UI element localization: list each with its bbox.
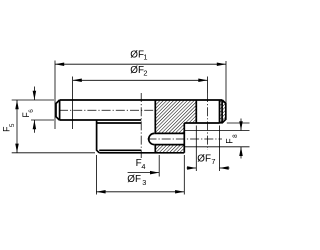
- label F4: [136, 158, 146, 171]
- svg-text:6: 6: [28, 109, 35, 113]
- dimension line F5: [16, 100, 18, 153]
- svg-text:ØF: ØF: [127, 174, 141, 185]
- dimension line dia F1: [55, 63, 226, 65]
- svg-text:7: 7: [211, 157, 215, 166]
- hatching flange section left block: [155, 100, 196, 133]
- rim outer chamfered edge: [220, 100, 226, 123]
- label dia F7: [197, 154, 215, 166]
- arrowhead F5 bottom: [15, 144, 19, 153]
- svg-text:ØF: ØF: [197, 154, 211, 165]
- part outline: [56, 100, 226, 153]
- rim inner edge: [219, 100, 221, 123]
- hatching outer rim strip: [220, 100, 226, 123]
- dimension line dia F2: [73, 79, 208, 81]
- arrowhead dia F2 left: [73, 79, 82, 83]
- bore edge above slot: [154, 100, 156, 133]
- extension line F6 bottom: [31, 119, 54, 121]
- dimension line F8 upper tail: [240, 119, 242, 131]
- recess silhouette edge line: [97, 122, 142, 124]
- radial hole end arc: [149, 133, 155, 144]
- extension line dia F7 left: [195, 126, 197, 172]
- extension line F4: [158, 155, 160, 177]
- extension line top left at y100: [12, 99, 54, 101]
- centerline bolt hole axis: [207, 93, 209, 150]
- top edge: [60, 99, 223, 101]
- label dia F1: [130, 50, 147, 62]
- label F8 (rotated): [225, 134, 239, 144]
- dimension line F6 lower tail: [33, 120, 35, 133]
- hub bottom chamfer edge circle (external view): [99, 149, 141, 151]
- label dia F2: [130, 65, 147, 77]
- dimension line dia F3: [96, 191, 184, 193]
- dimension line F6 upper tail: [33, 87, 35, 101]
- label dia F3: [127, 174, 146, 187]
- arrowhead F6 bottom (outside pointing up): [33, 120, 37, 129]
- extension line dia F2 right upper: [207, 77, 209, 94]
- label F5 (rotated): [2, 123, 16, 132]
- arrowhead F6 top (outside pointing down): [33, 91, 37, 100]
- extension line dia F2 left: [72, 77, 74, 130]
- arrowhead F8 top (pointing down): [239, 121, 243, 130]
- arrowhead dia F1 right: [217, 62, 226, 65]
- svg-text:8: 8: [232, 134, 239, 138]
- dimension line F8 lower tail: [240, 147, 242, 159]
- extension line dia F1 left: [54, 61, 56, 130]
- bore edge below slot: [154, 145, 156, 153]
- plate rim chamfer edge (left, external view): [59, 100, 61, 120]
- extension line dia F7 right: [219, 126, 221, 172]
- extension line F8 bottom: [184, 146, 249, 148]
- extension line dia F1 right: [225, 61, 227, 104]
- centerline part vertical axis: [140, 93, 142, 158]
- bolt hole left edge: [195, 100, 197, 123]
- hatching hub lower band: [155, 145, 184, 153]
- extension line bottom F5 at y153: [12, 152, 95, 154]
- extension line dia F3 right: [183, 155, 185, 195]
- left end chamfered edge: [56, 100, 60, 120]
- arrowhead dia F7 left (outside pointing right): [187, 166, 196, 170]
- centerline radial hole axis: [148, 138, 223, 140]
- hub left edge: [97, 120, 100, 153]
- step horizontal / hole bottom edge: [184, 122, 219, 124]
- arrowhead F4 right: [150, 171, 159, 175]
- svg-text:ØF: ØF: [130, 50, 144, 61]
- step vertical (recess wall): [183, 123, 185, 153]
- radial hole bottom edge: [154, 144, 184, 146]
- extension line plate bottom to F8: [227, 122, 250, 124]
- arrowhead dia F1 left: [55, 62, 64, 65]
- centerline bar axis: [59, 109, 155, 111]
- dimension line F4: [128, 172, 160, 174]
- svg-text:5: 5: [9, 123, 16, 127]
- svg-text:3: 3: [142, 178, 146, 187]
- dimension line dia F7 left tail: [187, 167, 197, 169]
- plate bottom edge (to axis): [59, 119, 141, 121]
- dimension line dia F7 right tail: [220, 167, 230, 169]
- svg-text:4: 4: [141, 162, 145, 171]
- arrowhead dia F7 right (outside pointing left): [220, 166, 229, 170]
- svg-text:1: 1: [143, 53, 147, 62]
- svg-text:2: 2: [143, 68, 147, 77]
- extension line dia F3 left: [95, 155, 97, 195]
- arrowhead F5 top: [15, 100, 19, 109]
- arrowhead dia F3 left: [96, 190, 105, 194]
- arrowhead dia F3 right: [175, 190, 184, 194]
- label F6 (rotated): [21, 109, 35, 118]
- arrowhead dia F2 right: [198, 79, 207, 83]
- svg-text:ØF: ØF: [130, 65, 144, 76]
- plate rim chamfer edge (right, in section): [221, 100, 223, 123]
- arrowhead F8 bottom (pointing up): [239, 147, 243, 156]
- hub bottom edge: [99, 152, 184, 154]
- radial hole top edge: [154, 132, 184, 134]
- extension line F8 top: [185, 130, 250, 132]
